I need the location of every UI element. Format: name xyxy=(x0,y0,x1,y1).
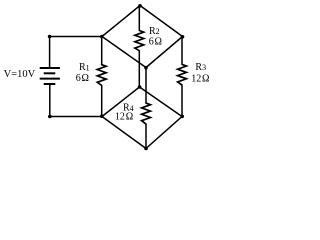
svg-text:V=10V: V=10V xyxy=(4,69,36,80)
svg-text:12Ω: 12Ω xyxy=(115,112,133,123)
svg-text:6Ω: 6Ω xyxy=(76,73,89,84)
svg-text:12Ω: 12Ω xyxy=(191,74,209,85)
svg-text:R3: R3 xyxy=(195,62,206,73)
svg-text:R2: R2 xyxy=(149,26,160,37)
svg-text:6Ω: 6Ω xyxy=(149,36,162,47)
svg-text:R1: R1 xyxy=(79,62,90,73)
